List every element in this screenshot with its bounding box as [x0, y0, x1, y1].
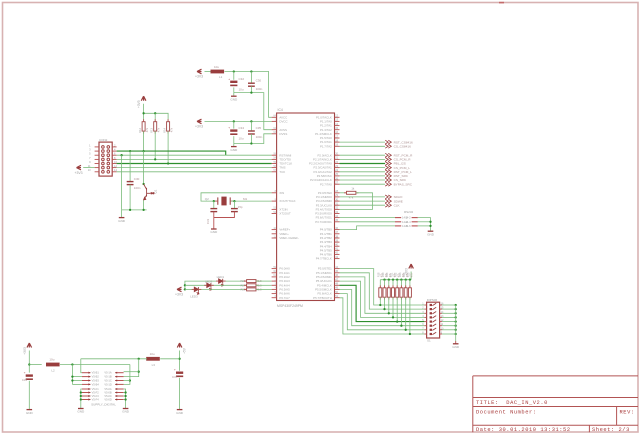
junction S1 rail 3: [455, 312, 457, 314]
resistor R19: [383, 288, 386, 297]
signal flag SDWE: [385, 199, 391, 203]
LED LED1: [219, 279, 224, 286]
supply +3V3: [195, 119, 203, 129]
svg-text:1: 1: [89, 143, 91, 147]
signal flag CS_SRC: [385, 178, 391, 182]
svg-text:GND: GND: [230, 97, 238, 101]
svg-text:V5-B4: V5-B4: [92, 382, 100, 386]
junction LED rail a: [184, 288, 186, 290]
supply block lower pin labels: [92, 387, 112, 402]
wire lower left branch: [81, 392, 82, 394]
junction C36 drop: [129, 150, 131, 152]
wire C34 bottom: [233, 136, 235, 143]
capacitor C33 (polarized): [24, 371, 33, 380]
junction R19 row: [383, 308, 385, 310]
junction rail R23: [400, 279, 402, 281]
wire R21 bottom: [392, 297, 394, 317]
svg-text:+3V3: +3V3: [195, 125, 203, 129]
wire R19 top: [384, 280, 386, 288]
wire RST_PCM_L: [340, 171, 386, 173]
S1 pin stubs: [424, 305, 442, 334]
wire LED3 to R28: [198, 288, 246, 290]
svg-text:R13: R13: [150, 127, 154, 132]
svg-text:C34: C34: [239, 126, 245, 130]
ground GND6: [452, 344, 460, 349]
svg-text:REV:: REV:: [620, 410, 635, 416]
junction L2 rail: [71, 363, 73, 365]
supply +3V3: [23, 343, 32, 355]
resistor R24: [404, 288, 407, 297]
op IC4 MSP430F249PM body: [277, 113, 335, 301]
wire LED2 anode: [185, 284, 207, 286]
junction R22 row: [396, 320, 398, 322]
junction rail R13: [154, 112, 156, 114]
junction GND drop: [120, 154, 122, 156]
wire R28 to IC: [256, 288, 272, 290]
wire S1 out 7: [442, 329, 456, 331]
wire pullup rail: [144, 113, 169, 121]
svg-text:1k: 1k: [351, 187, 355, 191]
junction lower left: [80, 398, 82, 400]
wire Q1 emitter: [143, 200, 145, 210]
wire P5.0 stair: [340, 269, 425, 305]
wire R13 top: [154, 113, 156, 121]
svg-text:V5-0A: V5-0A: [104, 387, 111, 391]
wire LED2 to R27: [211, 284, 247, 286]
junction row2: [71, 375, 73, 377]
svg-text:L3: L3: [152, 363, 156, 367]
wire RS232 r2 gnd: [418, 221, 431, 223]
svg-text:GND: GND: [210, 230, 218, 234]
wire R18 bottom: [379, 297, 381, 305]
connector CON2 JTAG body: [99, 142, 112, 176]
wire left comb trunk: [71, 365, 73, 385]
frame tick mark: [499, 2, 504, 4]
supply +3V3: [175, 287, 183, 297]
wire gnd rail: [122, 209, 147, 211]
RS232 pin labels: [402, 216, 411, 228]
svg-text:10u: 10u: [214, 65, 219, 69]
svg-text:GND: GND: [427, 232, 435, 236]
junction R13: [154, 158, 156, 160]
junction XOUT C32b: [233, 200, 235, 202]
wire C37 to gnd: [179, 378, 181, 409]
ground GND2: [230, 147, 238, 152]
resistor R14: [167, 122, 170, 131]
wire C33 to gnd: [28, 381, 30, 410]
svg-text:10u: 10u: [150, 352, 155, 356]
capacitor C31: [210, 209, 217, 212]
wire BYPAS_SRC: [340, 183, 386, 185]
junction lower right: [124, 391, 126, 393]
svg-text:+: +: [174, 368, 176, 372]
svg-text:15p: 15p: [238, 205, 243, 209]
svg-text:BYPAS_SRC: BYPAS_SRC: [394, 182, 413, 186]
svg-text:P1.7/TA2: P1.7/TA2: [320, 144, 332, 148]
svg-text:L1: L1: [219, 75, 223, 79]
svg-text:VREF-/VeREF-: VREF-/VeREF-: [279, 236, 299, 240]
svg-text:GND: GND: [230, 148, 238, 152]
wire TDI dark: [117, 163, 272, 165]
wire P5.2 stair: [340, 277, 425, 313]
svg-text:R14: R14: [163, 127, 167, 132]
svg-text:V5-F3: V5-F3: [92, 394, 100, 398]
wire lower right comb: [124, 389, 126, 408]
signal flag CS_PCM_L: [385, 166, 391, 170]
resistor R20: [387, 288, 390, 297]
svg-text:Document Number:: Document Number:: [476, 410, 537, 416]
wire GND drop: [121, 155, 123, 210]
junction R24 row: [405, 329, 407, 331]
title block frame: [473, 376, 638, 432]
wire LED1 anode: [185, 281, 219, 289]
svg-text:V5-0C: V5-0C: [104, 394, 111, 398]
svg-text:TCK: TCK: [279, 170, 285, 174]
wire P5.5 stair: [340, 290, 425, 326]
svg-text:DVSS: DVSS: [279, 132, 287, 136]
junction lower left: [80, 391, 82, 393]
svg-text:LED1: LED1: [217, 275, 225, 279]
junction RS232 r2: [429, 221, 431, 223]
svg-text:14-6: 14-6: [405, 224, 411, 228]
svg-text:V5-0B: V5-0B: [104, 391, 111, 395]
signal flag RST_PCM_L: [385, 170, 391, 174]
wire AVCC: [225, 72, 272, 118]
junction lower right: [124, 395, 126, 397]
wire R24 top: [405, 280, 407, 288]
signal flag RST_CS8416: [385, 140, 391, 144]
LED LED2: [207, 283, 212, 290]
wire P5.1 stair: [340, 273, 425, 309]
wire R20 bottom: [388, 297, 390, 313]
junction gnd rail C36: [129, 209, 131, 211]
wire S1 out 6: [442, 325, 456, 327]
wire SDAO: [340, 196, 386, 198]
ground GND5: [427, 231, 435, 236]
junction S1 rail 1: [455, 304, 457, 306]
signal flag CLK: [385, 203, 391, 207]
wire lower right branch: [124, 392, 126, 394]
wire lower left branch: [81, 395, 82, 397]
junction S1 rail 5: [455, 320, 457, 322]
wire lower right branch: [124, 399, 126, 401]
signal flag RST_PCM_R: [385, 153, 391, 157]
wire +5V down: [179, 351, 181, 371]
wire AVSS: [234, 93, 272, 130]
wire CS_PCM_R: [340, 158, 386, 160]
svg-text:P2.7/TA0: P2.7/TA0: [320, 182, 332, 186]
junction lower right: [124, 398, 126, 400]
wire RS232 row2: [340, 221, 396, 223]
wire LED3 anode: [185, 288, 194, 290]
svg-text:47k: 47k: [169, 127, 173, 132]
junction XIN C31: [213, 200, 215, 202]
IC4 right pins: [335, 117, 340, 297]
IC4 left pin names: [279, 115, 299, 299]
wire C35 bottom: [250, 134, 252, 144]
wire R24 bottom: [405, 297, 407, 330]
resistor R22: [396, 288, 399, 297]
svg-text:CLK: CLK: [394, 203, 401, 207]
wire lower left branch: [81, 399, 82, 401]
junction S1 rail 7: [455, 329, 457, 331]
wire RS232 row1: [340, 217, 396, 219]
supply +3V3: [75, 165, 83, 175]
wire R25 top: [409, 280, 411, 288]
svg-text:P5.7/TBOUTH: P5.7/TBOUTH: [313, 296, 332, 300]
junction S1 rail 8: [455, 333, 457, 335]
wire S1 out 8: [442, 333, 456, 335]
wire +3V3 LED: [184, 288, 185, 290]
junction rail R21: [392, 279, 394, 281]
svg-text:10u: 10u: [239, 136, 244, 140]
wire C32 top: [233, 72, 235, 80]
ground GND4: [210, 229, 218, 234]
wire C31 top: [213, 201, 215, 208]
svg-text:MSP430F249PM: MSP430F249PM: [277, 304, 303, 308]
svg-text:Q1: Q1: [153, 189, 157, 193]
svg-text:100n: 100n: [256, 135, 263, 139]
svg-text:Q2: Q2: [205, 197, 209, 201]
wire R20 top: [388, 280, 390, 288]
S1 switch levers: [430, 303, 437, 335]
capacitor C34 (polarized): [228, 126, 237, 135]
svg-text:+3V3: +3V3: [137, 100, 141, 108]
wire SDWE: [340, 200, 386, 202]
wire RST jog: [117, 151, 226, 155]
signal flag SDAO: [385, 195, 391, 199]
svg-text:C30: C30: [256, 78, 262, 82]
wire S1 out 5: [442, 321, 456, 323]
junction DVCC C35: [250, 120, 252, 122]
supply +5V: [177, 343, 186, 354]
wire P5.6 stair: [340, 294, 425, 330]
svg-text:Date: 30.01.2010 13:31:52: Date: 30.01.2010 13:31:52: [476, 427, 571, 433]
junction DVCC C34: [233, 120, 235, 122]
svg-text:47k: 47k: [349, 196, 354, 200]
resistor R13: [154, 122, 157, 131]
svg-text:GND: GND: [118, 219, 126, 223]
ground GND7: [26, 410, 34, 415]
svg-text:V5-1B: V5-1B: [104, 375, 111, 379]
svg-text:GND: GND: [176, 411, 184, 415]
wire S1 out 3: [442, 312, 456, 314]
wire row4 right: [124, 365, 130, 385]
LED and resistor pin stubs: [192, 281, 259, 289]
ground GND9: [122, 409, 130, 414]
wire PBL_I2S: [340, 163, 386, 165]
svg-text:P6.7/A7: P6.7/A7: [279, 296, 290, 300]
wire C32b top: [233, 201, 235, 208]
svg-text:47k: 47k: [145, 127, 149, 132]
svg-text:14-2: 14-2: [405, 216, 411, 220]
svg-text:10u: 10u: [49, 358, 54, 362]
wire row2 right: [124, 359, 139, 377]
svg-text:DIPS06: DIPS06: [427, 298, 438, 302]
wire to GND1: [233, 93, 235, 96]
wire top rail: [81, 358, 147, 360]
svg-text:+: +: [228, 126, 230, 130]
crystal Q2: [218, 197, 230, 206]
svg-text:+3V3: +3V3: [175, 293, 183, 297]
wire RST/NMI: [117, 154, 272, 156]
junction LED rail b: [184, 284, 186, 286]
wire RST_CS8416: [340, 141, 386, 143]
connector RS232 pins: [395, 218, 418, 226]
wire S1 gnd rail: [455, 305, 457, 341]
wire S1 out 2: [442, 308, 456, 310]
svg-text:XT2OUT: XT2OUT: [279, 212, 291, 216]
svg-text:LED3: LED3: [190, 294, 198, 298]
CON2 pin stubs: [95, 147, 117, 172]
junction RS232 r3: [429, 225, 431, 227]
wire TCK: [117, 171, 272, 173]
svg-text:3: 3: [89, 148, 91, 152]
wire CS_CS8416: [340, 145, 386, 147]
ground GND10: [176, 410, 184, 415]
svg-text:C37: C37: [172, 375, 178, 379]
wire +3V3 rail down: [143, 104, 145, 122]
junction R12/Q1: [142, 150, 144, 152]
svg-text:V5-B1: V5-B1: [92, 371, 100, 375]
svg-text:C31: C31: [206, 218, 210, 224]
svg-text:10u: 10u: [239, 88, 244, 92]
junction AVCC C32: [233, 70, 235, 72]
wire +3V3 rnet: [410, 272, 412, 280]
wire RS232 row3 jog: [340, 226, 396, 230]
junction R21 row: [392, 316, 394, 318]
svg-text:TITLE: DAC_IN_V2.0: TITLE: DAC_IN_V2.0: [476, 400, 548, 406]
svg-text:RS232: RS232: [404, 210, 414, 214]
wire to GND2: [233, 144, 235, 147]
svg-text:GND: GND: [452, 345, 460, 349]
resistor R26: [247, 280, 256, 283]
wire R22 top: [396, 280, 398, 288]
svg-text:P4.7/TBCLK: P4.7/TBCLK: [316, 257, 332, 261]
supply block lower pins: [82, 388, 124, 401]
wire RS232 gnd rail: [418, 218, 431, 231]
wire C36 top: [129, 151, 131, 181]
svg-text:DVCC: DVCC: [279, 120, 287, 124]
signal flag BYPAS_SRC: [385, 182, 391, 186]
resistor R21: [392, 288, 395, 297]
svg-text:R12: R12: [138, 127, 142, 132]
wire RST_SRC: [340, 175, 386, 177]
wire RST_PCM_R: [340, 154, 386, 156]
wire row3 right b: [124, 380, 130, 382]
wire P5.3 stair: [340, 281, 425, 317]
resistor R15: [347, 191, 356, 194]
wire LED1 to R26: [223, 280, 247, 282]
svg-text:V5-0D: V5-0D: [104, 398, 111, 402]
junction supply left: [28, 363, 30, 365]
wire to L2: [29, 364, 41, 366]
junction S1 rail 4: [455, 316, 457, 318]
wire lower left comb: [81, 389, 82, 408]
capacitor C32: [231, 209, 238, 212]
IC4 left pin numbers: [273, 115, 276, 298]
CON2 pin circles: [102, 146, 110, 174]
svg-text:GND: GND: [122, 410, 130, 414]
svg-text:C35: C35: [256, 126, 262, 130]
svg-text:+: +: [228, 77, 230, 81]
svg-text:LED2: LED2: [205, 279, 213, 283]
svg-text:V5-1C: V5-1C: [104, 379, 111, 383]
supply +3V3: [137, 96, 146, 108]
wire R25 bottom: [409, 297, 411, 334]
wire L3 to +5V: [160, 358, 179, 360]
svg-text:L2: L2: [51, 369, 55, 373]
junction DVSS: [250, 142, 252, 144]
supply block upper pin labels: [92, 371, 112, 387]
wire rnet rail: [380, 279, 411, 281]
wire R27 to IC: [256, 284, 272, 286]
S1 pin numbers: [422, 303, 444, 335]
svg-text:V5-F1: V5-F1: [92, 387, 100, 391]
wire R18 top: [379, 280, 381, 288]
junction AVCC C30: [250, 70, 252, 72]
wire +3V3 to L1: [205, 71, 211, 73]
svg-text:47k: 47k: [156, 127, 160, 132]
wire S1 out 4: [442, 316, 456, 318]
wire XOUT: [231, 200, 272, 202]
switch S1 DIPS06 body: [427, 302, 440, 338]
svg-text:V5-1A: V5-1A: [104, 371, 111, 375]
wire supply left down: [28, 351, 30, 373]
capacitor C37 (polarized): [174, 368, 183, 377]
svg-text:13: 13: [88, 168, 91, 172]
wire R21 top: [392, 280, 394, 288]
svg-text:C32: C32: [239, 77, 245, 81]
wire C30 top: [250, 72, 252, 83]
junction rail R22: [396, 279, 398, 281]
svg-text:M1: M1: [243, 197, 247, 201]
wire row4 left: [72, 383, 82, 385]
svg-text:C30: C30: [134, 177, 140, 181]
svg-text:SUPPLY_DIGITAL: SUPPLY_DIGITAL: [91, 403, 116, 407]
resistor R23: [400, 288, 403, 297]
junction R18 row: [379, 304, 381, 306]
resistor R25: [408, 288, 411, 297]
wire row1 left: [81, 359, 82, 373]
inductor L2: [46, 363, 60, 367]
resistor R27: [247, 284, 256, 287]
wire CS_PCM_L: [340, 167, 386, 169]
junction row1 right: [138, 371, 140, 373]
wire C34 top: [233, 121, 235, 128]
ground GND1: [230, 96, 238, 101]
svg-text:9: 9: [89, 160, 91, 164]
wire to GND3: [121, 210, 123, 217]
junction AVSS: [250, 91, 252, 93]
IC4 right pin names: [309, 115, 332, 299]
resistor R28: [247, 288, 256, 291]
junction Q1 collector: [142, 183, 144, 185]
wire R13 bottom: [154, 131, 156, 159]
wire R12 bottom: [143, 131, 145, 151]
junction rail R24: [405, 279, 407, 281]
wire R23 top: [400, 280, 402, 288]
crystal cap ground bracket: [214, 212, 235, 229]
svg-text:+5V: +5V: [182, 347, 186, 354]
junction S1 rail 6: [455, 325, 457, 327]
ground GND8: [77, 409, 85, 414]
signal flag CS_CS8416: [385, 144, 391, 148]
wire top rail to L3: [145, 358, 148, 360]
svg-text:S1: S1: [427, 339, 431, 343]
svg-text:XOUT/TCLK: XOUT/TCLK: [279, 199, 295, 203]
junction rail R12: [142, 112, 144, 114]
